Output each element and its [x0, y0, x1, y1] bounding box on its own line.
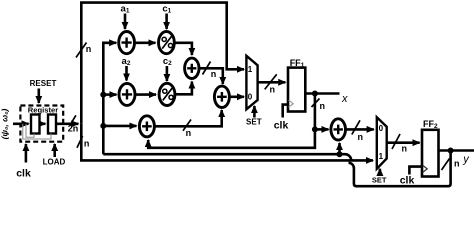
- wire: x branch arrow into adder A4 left: [315, 128, 329, 131]
- wire: FF1 output to x: [305, 92, 339, 95]
- wire: mux U2 output into FF2 input: [387, 141, 420, 144]
- svg-text:clk: clk: [274, 120, 289, 132]
- wire: junction branch arrow up into adder A4 bottom: [338, 143, 341, 154]
- junction dot on FF1 output: [312, 91, 318, 97]
- svg-text:x: x: [341, 93, 348, 105]
- register cell 1: [31, 115, 40, 134]
- wire: SET select arrow into mux U2: [379, 169, 382, 175]
- mux U1: [246, 56, 257, 110]
- adder A5 (pre-mux U1): [214, 86, 229, 107]
- wire: y feedback down along bottom and up merging at jog: [349, 151, 451, 187]
- svg-text:Register: Register: [28, 105, 58, 114]
- wire: mux U1 output into FF1 input: [258, 81, 286, 84]
- junction dot on column at row3: [100, 123, 106, 129]
- wire: adder A3 output right and up into adder A5 bottom: [154, 110, 221, 126]
- junction dot on x feedback at adder A4 branch: [312, 126, 318, 132]
- wire: lower n bus from junction down and right to mux U2 input 1: [81, 124, 373, 161]
- adder A1: [119, 31, 135, 53]
- wire: clk into FF2: [409, 167, 421, 175]
- svg-text:n: n: [402, 143, 408, 153]
- wire: mod M2 output up into adder A4t bottom: [175, 82, 192, 95]
- wire: adder A5 output into mux U1 input 0: [229, 96, 244, 99]
- flip-flop FF1: [288, 68, 305, 112]
- mod M1: [159, 31, 175, 53]
- wire: FF2 output to y: [439, 149, 474, 152]
- adder A3 (bottom left): [139, 116, 154, 137]
- bus slash on adder A3 output: [183, 120, 191, 131]
- svg-text:n: n: [320, 101, 326, 111]
- svg-text:SET: SET: [246, 118, 262, 127]
- junction dot on column at row2: [100, 92, 106, 98]
- adder A4t (sum of mods): [185, 58, 199, 78]
- wire: c1 input arrow: [165, 14, 168, 30]
- bus slash on top bus: [76, 43, 87, 58]
- bus slash on register output: [70, 115, 76, 125]
- svg-text:(ψ₀, ω₀): (ψ₀, ω₀): [0, 108, 10, 139]
- wire: column bottom corner into horizontal line toward junction and S-jog onto lower bus: [103, 154, 351, 160]
- svg-text:a2: a2: [122, 56, 131, 67]
- svg-text:0: 0: [379, 124, 384, 133]
- wire: column branch arrow into adder A2 left: [103, 93, 116, 96]
- adder A4 (x + w): [331, 119, 346, 140]
- bus slash on lower bus: [77, 136, 83, 148]
- adder A2: [119, 83, 135, 105]
- wire: adder A4 output into mux U2 input 0: [346, 128, 374, 131]
- wire: RESET arrow into register box: [37, 89, 40, 104]
- wire: x feedback down left and up into adder A3 bottom: [148, 94, 315, 148]
- register cell 2: [48, 115, 56, 134]
- register internal scan loop 1: [26, 124, 34, 138]
- mod M2: [159, 83, 175, 105]
- svg-text:c1: c1: [162, 4, 171, 15]
- wire: a1 input arrow: [124, 14, 127, 30]
- svg-text:y: y: [462, 154, 470, 166]
- bus slash on mux U2 output: [392, 134, 400, 149]
- bus slash on y output: [442, 159, 450, 171]
- wire: register cell1 to cell2: [40, 123, 46, 126]
- svg-text:FF2: FF2: [423, 119, 438, 130]
- svg-text:n: n: [86, 44, 92, 54]
- svg-text:SET: SET: [372, 176, 387, 185]
- svg-text:n: n: [358, 132, 364, 142]
- wire: column branch arrow into adder A3 left: [103, 125, 136, 128]
- wire: mod M1 output down into adder A4t top: [174, 43, 192, 55]
- svg-text:clk: clk: [16, 168, 31, 180]
- svg-text:n: n: [84, 138, 90, 148]
- svg-text:clk: clk: [400, 175, 415, 187]
- svg-text:a1: a1: [121, 4, 130, 15]
- wire: register 2n output into bus junction: [56, 123, 78, 126]
- wire: LOAD arrow into register box: [53, 144, 56, 157]
- svg-text:2n: 2n: [68, 124, 79, 134]
- wire: adder A4t output down into adder A5 top: [199, 68, 223, 84]
- svg-text:RESET: RESET: [30, 79, 57, 88]
- register REG dashed box: [20, 106, 63, 142]
- svg-text:LOAD: LOAD: [43, 158, 66, 167]
- svg-text:1: 1: [248, 65, 253, 74]
- wire: a2 input arrow: [125, 66, 128, 81]
- svg-text:n: n: [454, 159, 460, 169]
- flip-flop FF2: [422, 130, 439, 177]
- bus slash on adder A4t output: [203, 62, 211, 75]
- wire: clk arrow into register box: [25, 144, 28, 163]
- wire: c2 input arrow: [166, 66, 169, 81]
- wire: adder A2 to mod M2: [135, 93, 156, 96]
- wire: arrow into adder A1 left: [106, 41, 116, 44]
- register internal scan loop 2: [23, 124, 51, 139]
- wire: SET select arrow into mux U1: [253, 106, 256, 118]
- junction dot on lower wire feeding adder A4 bottom: [337, 151, 343, 157]
- svg-text:1: 1: [379, 152, 384, 161]
- svg-text:c2: c2: [163, 56, 172, 67]
- junction dot on FF2 output: [448, 148, 454, 154]
- bus slash on mux U1 output: [265, 74, 277, 89]
- wire: clk into FF1: [283, 105, 288, 118]
- wire: register input from initial values label: [13, 123, 29, 126]
- wire: initial-value top bus from register junction up and across to mux U1 input 1: [81, 3, 244, 124]
- mux U2: [377, 117, 387, 169]
- svg-text:n: n: [270, 85, 276, 95]
- wire: adder A1 to mod M1: [135, 41, 156, 44]
- svg-text:n: n: [186, 128, 192, 138]
- svg-text:n: n: [211, 69, 217, 79]
- bus slash on x feedback: [312, 99, 320, 108]
- svg-text:0: 0: [248, 93, 253, 102]
- svg-text:FF1: FF1: [290, 58, 305, 69]
- bus slash on adder A4 output: [352, 120, 360, 134]
- wire: feedback column with top corner into adder A1: [103, 43, 112, 154]
